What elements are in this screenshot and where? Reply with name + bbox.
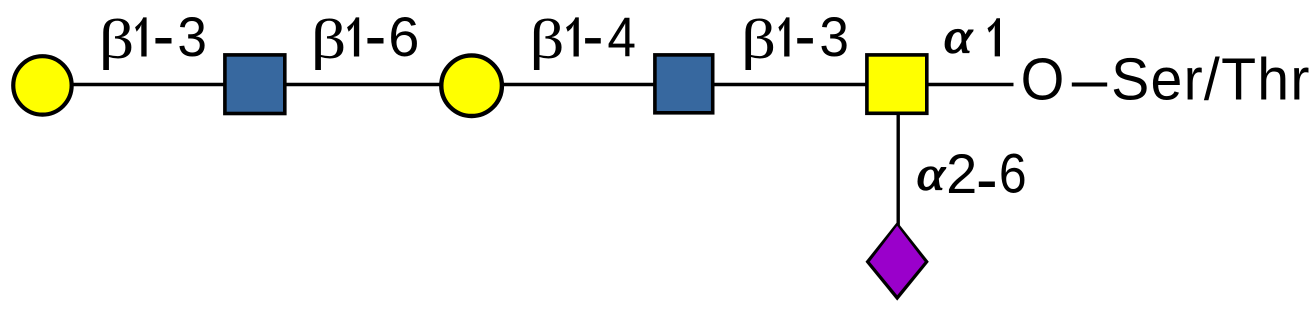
svg-text:β: β (311, 8, 347, 71)
svg-text:-: - (794, 0, 815, 75)
svg-text:3: 3 (177, 6, 207, 69)
svg-text:3: 3 (819, 6, 849, 69)
svg-text:-: - (976, 140, 998, 218)
svg-text:6: 6 (999, 143, 1027, 205)
svg-text:α: α (917, 147, 946, 200)
svg-text:-: - (153, 0, 175, 75)
svg-text:β: β (99, 8, 135, 71)
svg-text:-: - (582, 0, 603, 75)
svg-text:β: β (741, 8, 776, 71)
svg-text:6: 6 (388, 5, 419, 68)
svg-text:α: α (944, 10, 973, 64)
svg-text:O: O (1021, 47, 1065, 113)
svg-text:2: 2 (946, 142, 977, 205)
svg-text:Ser/Thr: Ser/Thr (1111, 47, 1311, 113)
svg-text:β: β (530, 8, 565, 71)
svg-text:4: 4 (607, 6, 636, 69)
svg-text:-: - (365, 0, 387, 75)
